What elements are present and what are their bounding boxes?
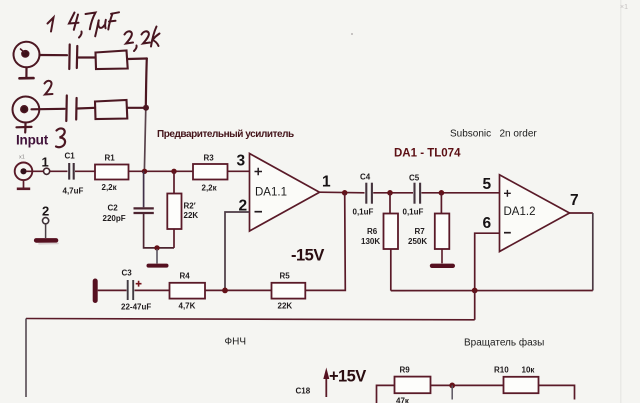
op-amp DA1.2 <box>500 175 570 252</box>
wire R10 right <box>539 385 575 399</box>
wire node A down to C2 <box>143 171 145 207</box>
junction node A (R2 tap) <box>171 169 176 174</box>
wire pin2 to ground <box>45 224 47 238</box>
ground (R7) <box>432 249 453 266</box>
capacitor C5 <box>415 183 421 204</box>
wire cap to resistor ch.2 <box>78 107 96 110</box>
resistor R2' <box>167 194 181 230</box>
wire output down <box>592 213 594 291</box>
svg-text:R1: R1 <box>105 154 116 163</box>
resistor R4 <box>170 283 206 299</box>
svg-text:C1: C1 <box>65 152 76 161</box>
svg-text:4,7K: 4,7K <box>179 302 196 311</box>
svg-text:C2: C2 <box>108 204 119 213</box>
ground (X1) <box>17 180 30 189</box>
svg-text:250K: 250K <box>408 237 427 246</box>
resistor R7 <box>435 214 450 250</box>
capacitor C2 <box>134 208 154 213</box>
svg-text:R10: R10 <box>494 366 509 375</box>
svg-text:220pF: 220pF <box>103 214 126 223</box>
svg-text:22K: 22K <box>184 211 199 220</box>
svg-text:47к: 47к <box>396 397 410 403</box>
label 3 (handwritten) <box>56 128 65 147</box>
wire R4 to R5 <box>205 289 272 291</box>
svg-text:2,2к: 2,2к <box>102 183 118 192</box>
svg-text:1: 1 <box>42 155 49 170</box>
junction (hand bus) <box>143 105 149 111</box>
wire resistor ch.1 to vertical bus <box>128 57 147 60</box>
wire node D down to R7 <box>440 193 442 214</box>
svg-text:130K: 130K <box>361 237 380 246</box>
svg-text:R5: R5 <box>280 272 291 281</box>
svg-text:R9: R9 <box>400 366 411 375</box>
wire FNC block left edge <box>25 319 27 398</box>
capacitor C3 <box>128 280 134 300</box>
junction (R9/R10 node) <box>449 383 455 389</box>
svg-text:2,2к: 2,2к <box>202 184 218 193</box>
ground (C2/R2 rail) <box>149 249 167 266</box>
junction node C <box>387 190 393 196</box>
junction node B <box>342 190 348 196</box>
svg-text:10к: 10к <box>522 366 536 375</box>
wire DA1.1 output to node B <box>320 191 365 194</box>
svg-text:-15V: -15V <box>291 247 324 265</box>
junction (ground rail) <box>154 245 159 250</box>
svg-text:Subsonic 2n order: Subsonic 2n order <box>450 129 537 140</box>
wire feedback rail <box>391 290 593 292</box>
junction (pin6 node) <box>472 288 478 294</box>
plus sign DA1.2 <box>504 190 511 197</box>
resistor R5 <box>272 283 306 299</box>
svg-text:x1: x1 <box>19 155 25 161</box>
resistor 2,2k (hand-drawn, ch.1) <box>96 51 128 70</box>
svg-text:ФНЧ: ФНЧ <box>225 337 247 348</box>
terminal pin 2 <box>43 218 49 224</box>
resistor (hand-drawn, ch.2) <box>95 100 127 119</box>
svg-text:22K: 22K <box>278 302 293 311</box>
supply arrow +15V <box>323 368 329 398</box>
svg-text:×1: ×1 <box>620 4 628 11</box>
svg-text:R3: R3 <box>204 154 215 163</box>
ground (pin 2) <box>36 240 58 243</box>
resistor R3 <box>193 164 228 180</box>
wire plate to C3 <box>98 289 127 291</box>
wire vertical hand bus <box>146 59 147 108</box>
capacitor (hand-drawn, ch.2) <box>66 96 76 122</box>
resistor R9 <box>395 377 431 394</box>
faint scan streak <box>620 0 622 403</box>
terminal pin 1 <box>44 168 50 174</box>
wire R3 to DA1.1 pin3 <box>228 170 250 172</box>
wire R9 to R10 <box>431 384 504 386</box>
svg-text:R7: R7 <box>415 227 426 236</box>
svg-text:DA1 - TL074: DA1 - TL074 <box>394 148 461 160</box>
wire C4 to C5 <box>373 192 413 194</box>
wire X1 to pin1 <box>26 170 44 172</box>
svg-text:R6: R6 <box>367 227 378 236</box>
ground (hand-drawn under J1) <box>20 68 34 79</box>
wire R2 to ground rail <box>173 229 175 248</box>
wire C2 to ground rail <box>144 214 174 248</box>
svg-text:C5: C5 <box>409 174 420 183</box>
junction (pin2 node) <box>222 288 228 294</box>
svg-text:4,7uF: 4,7uF <box>63 187 84 196</box>
wire C1 to R1 <box>75 170 95 172</box>
svg-text:5: 5 <box>483 176 492 193</box>
polarity + of C3 <box>136 281 142 287</box>
svg-text:+15V: +15V <box>329 368 366 386</box>
junction node D <box>439 190 445 196</box>
svg-text:R4: R4 <box>180 272 191 281</box>
wire hand bus lower <box>144 108 145 171</box>
svg-text:R2′: R2′ <box>184 202 196 211</box>
svg-text:C3: C3 <box>122 269 133 278</box>
minus sign DA1.1 <box>255 211 263 213</box>
svg-text:C18: C18 <box>296 387 311 396</box>
wire DA1.1 pin2 feedback <box>225 212 250 290</box>
capacitor (hand-drawn, ch.1) <box>69 45 77 70</box>
wire DA1.2 pin6 <box>475 233 500 290</box>
wire node A down to R2 <box>173 171 175 193</box>
wire junction down <box>451 385 453 399</box>
svg-text:C4: C4 <box>360 173 371 182</box>
minus sign DA1.2 <box>504 232 511 234</box>
wire resistor ch.2 to bus junction <box>127 107 146 109</box>
connector X1 <box>15 163 33 181</box>
wire pin6 node to FNC bus <box>474 291 476 320</box>
svg-text:22-47uF: 22-47uF <box>121 303 151 312</box>
wire pin1 to C1 <box>49 170 67 172</box>
wire C3 to R4 <box>135 289 170 291</box>
wire DA1.2 output 7 <box>570 212 593 214</box>
ground (hand-drawn under J2) <box>17 123 32 133</box>
label 1 (handwritten) <box>48 18 54 32</box>
wire J2 to cap ch.2 <box>32 108 65 111</box>
svg-text:7: 7 <box>570 192 579 209</box>
resistor R10 <box>504 377 539 393</box>
wire node C down to R6 <box>389 193 391 214</box>
wire left of R9 <box>377 385 395 403</box>
svg-text:DA1.2: DA1.2 <box>504 206 536 218</box>
RCA jack J2 (hand-drawn) <box>12 96 39 122</box>
op-amp DA1.1 <box>250 154 320 232</box>
label 2 (handwritten) <box>45 81 53 95</box>
wire FNC bus (long horizontal) <box>26 319 475 320</box>
svg-text:6: 6 <box>483 215 492 232</box>
svg-text:Вращатель фазы: Вращатель фазы <box>464 337 544 349</box>
svg-text:Input: Input <box>16 133 49 148</box>
wire C5 to DA1.2 pin5 <box>421 192 499 194</box>
wire J1 to C-hand1 <box>40 54 68 56</box>
junction node A (C2 tap) <box>142 169 147 174</box>
svg-text:0,1uF: 0,1uF <box>353 208 374 217</box>
value 2,2k (handwritten) <box>125 27 160 52</box>
capacitor C4 <box>366 183 372 204</box>
svg-text:Предварительный усилитель: Предварительный усилитель <box>157 129 294 140</box>
RCA jack J1 (hand-drawn) <box>13 41 41 68</box>
plus sign DA1.1 <box>255 168 263 175</box>
wire cap to resistor ch.1 <box>79 56 96 58</box>
wire R6 to feedback rail <box>390 249 392 291</box>
supply plate (C3 left electrode) <box>93 281 98 301</box>
resistor R6 <box>384 214 399 250</box>
svg-text:0,1uF: 0,1uF <box>403 208 424 217</box>
svg-text:2: 2 <box>42 204 49 219</box>
wire R1 to R3 (node A) <box>129 170 194 172</box>
svg-text:1: 1 <box>322 174 331 191</box>
wire node B down to R5 <box>305 193 345 291</box>
resistor R1 <box>95 165 129 180</box>
speck <box>351 33 353 35</box>
svg-text:3: 3 <box>237 153 246 170</box>
value 4,7uF (handwritten) <box>69 12 119 37</box>
capacitor C1 <box>69 163 74 180</box>
svg-text:DA1.1: DA1.1 <box>255 187 287 199</box>
